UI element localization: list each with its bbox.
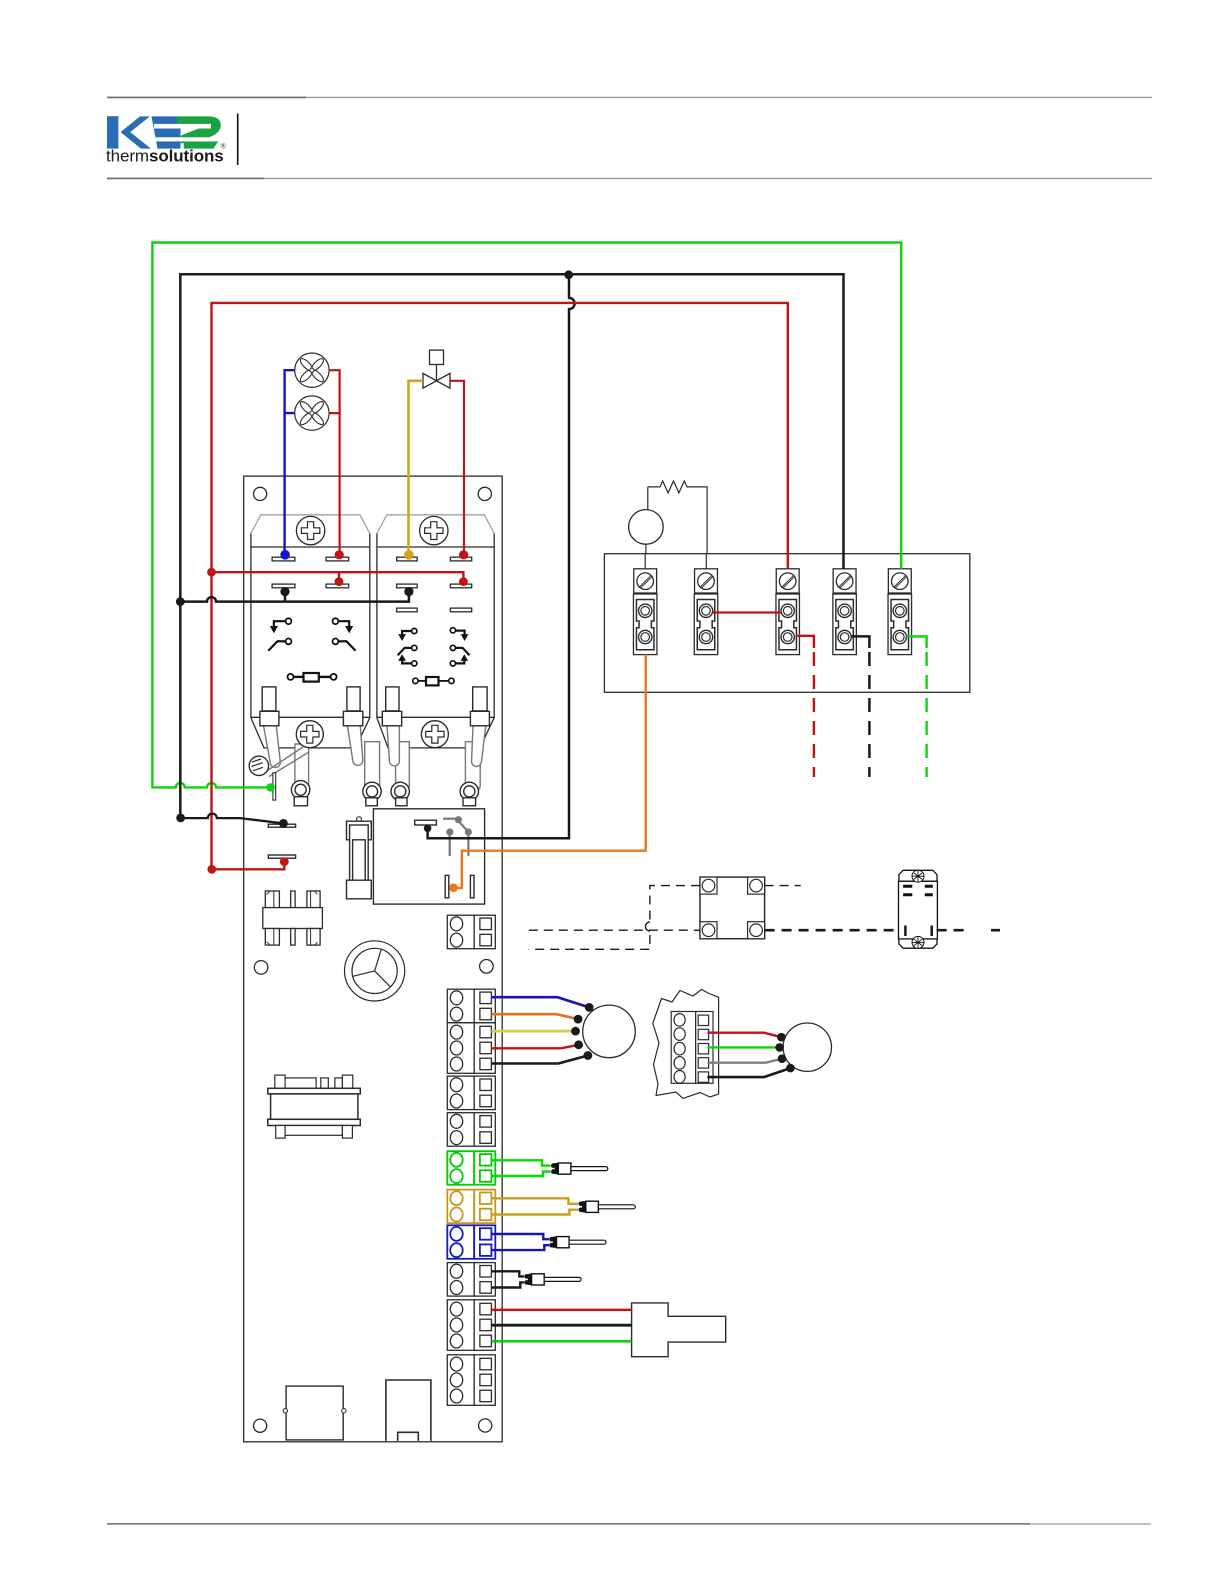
- svg-text:thermsolutions: thermsolutions: [106, 147, 224, 166]
